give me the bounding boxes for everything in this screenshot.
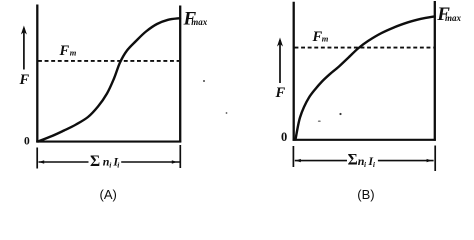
svg-text:F: F	[19, 72, 30, 88]
svg-text:max: max	[191, 17, 208, 27]
svg-text:m: m	[322, 34, 329, 44]
right border A	[179, 6, 181, 143]
y-axis A	[36, 5, 38, 143]
left tick B	[292, 146, 294, 167]
dimension line left segment B	[295, 160, 347, 162]
x-axis A	[36, 141, 181, 143]
svg-text:F: F	[59, 43, 70, 59]
dashed Fm level line A	[38, 60, 179, 62]
dashed Fm level line B	[295, 47, 434, 49]
svg-text:(A): (A)	[100, 187, 117, 202]
dimension line left segment A	[39, 161, 89, 163]
right border B	[434, 1, 436, 141]
svg-text:m: m	[70, 48, 77, 58]
right tick A	[179, 145, 181, 168]
dimension line right segment B	[378, 160, 434, 162]
right tick B	[434, 146, 436, 172]
dimension line right segment A	[121, 161, 179, 163]
x-axis B	[293, 139, 436, 141]
svg-text:(B): (B)	[357, 187, 374, 202]
svg-text:Σ: Σ	[348, 151, 358, 168]
F axis arrow B	[279, 40, 281, 83]
svg-text:Σ: Σ	[90, 153, 100, 170]
saturating curve B	[296, 16, 435, 139]
F axis arrow A	[23, 28, 25, 70]
svg-text:max: max	[445, 13, 462, 23]
sigmoid curve A	[38, 18, 180, 141]
scan speck dots	[203, 80, 205, 82]
svg-text:0: 0	[281, 130, 287, 144]
y-axis B	[293, 2, 295, 141]
left tick A	[36, 148, 38, 169]
svg-text:0: 0	[24, 136, 30, 148]
svg-text:F: F	[275, 85, 286, 101]
